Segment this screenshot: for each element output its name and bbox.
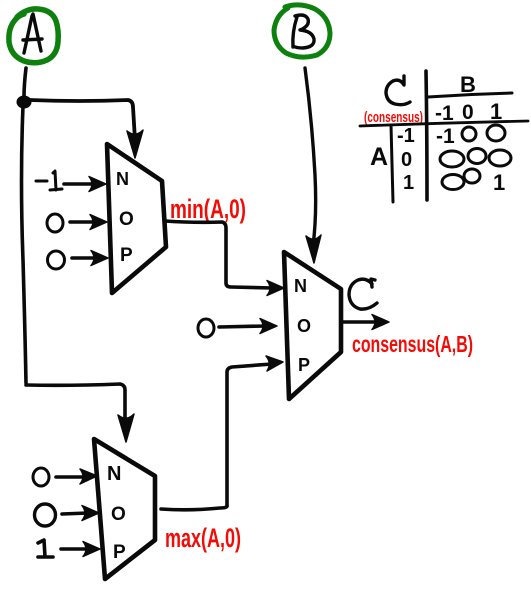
mux U2 (consensus) body	[284, 252, 341, 399]
svg-text:P: P	[298, 355, 310, 375]
wire: B down to U2 with arrow	[305, 68, 316, 246]
label -1 (input to U1.N)	[36, 171, 62, 190]
svg-text:1: 1	[490, 99, 502, 124]
truth table: row2 values 0 0 0	[440, 151, 464, 167]
wire: A long vertical down-left	[22, 106, 27, 383]
svg-text:-1: -1	[436, 125, 455, 148]
junction dot	[17, 96, 32, 109]
svg-text:O: O	[119, 209, 134, 230]
truth table: long horizontal line	[360, 121, 528, 126]
wire arrow into U1.P	[72, 256, 97, 260]
svg-text:0: 0	[401, 149, 412, 171]
truth table: row3 values 0 0 1	[442, 175, 464, 190]
svg-text:-1: -1	[435, 102, 454, 125]
label 0 (input to U1.P)	[48, 251, 65, 269]
truth table: vertical line rows	[391, 125, 393, 202]
svg-text:-1: -1	[397, 125, 415, 147]
label 0 (input to U1.O)	[47, 214, 63, 232]
truth table: header C	[386, 76, 410, 105]
node B: letter B	[293, 15, 314, 48]
svg-text:1: 1	[403, 172, 414, 194]
svg-text:max(A,0): max(A,0)	[165, 523, 241, 553]
svg-text:O: O	[111, 504, 126, 525]
wire: junction to mux1 top (horizontal then down with arrow)	[30, 100, 135, 140]
label O (input to U3.O)	[35, 504, 56, 526]
svg-text:consensus(A,B): consensus(A,B)	[352, 331, 473, 357]
wire arrow into U3.N	[56, 475, 85, 479]
wire: A down to junction	[24, 68, 26, 97]
svg-text:P: P	[113, 542, 126, 563]
mux U3 (max) body	[94, 439, 155, 579]
svg-text:min(A,0): min(A,0)	[170, 194, 246, 224]
svg-text:N: N	[294, 276, 307, 296]
node A: green circle	[9, 9, 58, 63]
label 0 (input to U3.N)	[33, 468, 49, 486]
truth table: hline under B	[428, 93, 512, 97]
wire: U3 output up to U2.P	[227, 364, 272, 506]
wire: A vertical to U3 top	[26, 384, 125, 424]
svg-text:0: 0	[462, 101, 474, 124]
mux U1 (min) body	[107, 144, 166, 293]
wire: U2 output arrow	[343, 320, 375, 324]
svg-text:P: P	[120, 245, 133, 266]
wire arrow into U1.O	[70, 220, 96, 224]
svg-text:N: N	[107, 463, 121, 485]
node B: green circle	[274, 5, 330, 57]
svg-text:A: A	[370, 143, 388, 171]
node A: letter A	[23, 14, 42, 53]
wire arrow into U2.O	[219, 326, 266, 327]
svg-text:N: N	[116, 169, 129, 189]
wire arrow into U3.O	[62, 513, 88, 514]
wire: U1 output to U2.N	[165, 221, 272, 288]
label 1 (input to U3.P)	[38, 540, 53, 557]
truth table: vertical line main	[426, 71, 427, 200]
svg-text:O: O	[297, 316, 311, 336]
label 0 (input to U2.O)	[198, 319, 214, 337]
wire arrow into U3.P	[61, 547, 89, 551]
svg-text:1: 1	[493, 170, 505, 195]
wire: U3 output right then up	[161, 506, 227, 510]
node C: letter C	[349, 279, 377, 309]
wire arrow into U1.N	[64, 182, 96, 186]
